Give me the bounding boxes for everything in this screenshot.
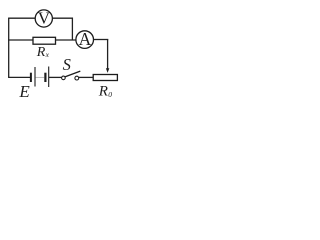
battery E — [31, 67, 49, 88]
svg-text:E: E — [18, 82, 30, 101]
switch S — [62, 71, 81, 80]
voltmeter V — [35, 8, 52, 27]
wire right vertical down to wiper — [107, 40, 109, 70]
switch terminal right — [75, 76, 79, 80]
svg-text:R0: R0 — [98, 84, 112, 100]
wire battery to switch — [49, 76, 62, 78]
battery plate long thin 2 — [48, 67, 50, 88]
wiper arrow onto rheostat — [106, 68, 109, 73]
ammeter A — [76, 29, 94, 49]
svg-text:S: S — [63, 55, 71, 74]
svg-text:Rx: Rx — [36, 45, 50, 60]
wire middle rail from left rail to Rx — [8, 39, 33, 41]
battery plate short thick 2 — [44, 73, 46, 82]
wire switch to rheostat — [79, 76, 94, 78]
wire top rail left segment — [8, 17, 35, 19]
wire right vertical of voltmeter branch — [71, 18, 73, 40]
svg-text:A: A — [79, 29, 92, 49]
rheostat R0 — [93, 75, 117, 81]
wire middle rail from Rx to ammeter — [56, 39, 77, 41]
switch terminal left — [62, 76, 66, 80]
svg-text:V: V — [38, 8, 51, 27]
wire ammeter to top-right corner — [93, 39, 108, 41]
battery plate short thick 1 — [30, 73, 32, 82]
resistor Rx — [33, 37, 56, 44]
wire faint inter-cell link — [36, 76, 45, 78]
switch lever — [65, 71, 80, 77]
wire top rail right segment — [52, 17, 73, 19]
wire left vertical rail — [8, 18, 10, 77]
battery plate long thin 1 — [34, 67, 36, 87]
wire bottom rail from left rail to battery — [8, 76, 30, 78]
